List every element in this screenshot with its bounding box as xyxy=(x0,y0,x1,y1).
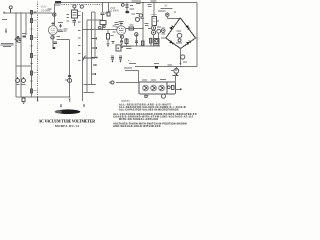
capacitor C6 on bus xyxy=(121,4,124,7)
wire grid tap xyxy=(87,19,102,21)
svg-text:1/2 6AN8: 1/2 6AN8 xyxy=(41,9,51,12)
svg-text:1/2 6AN8: 1/2 6AN8 xyxy=(109,10,119,13)
heater V1 xyxy=(143,85,149,91)
wire bus tap2 xyxy=(82,29,116,31)
shield dashed xyxy=(37,2,39,98)
wire to bridge apex xyxy=(167,17,180,19)
ground bottom left bus xyxy=(69,96,70,97)
labels above B+ bus xyxy=(132,0,138,1)
wire divider C xyxy=(25,13,27,35)
tube V1B envelope xyxy=(117,26,126,35)
trimmer capacitor C1A branch xyxy=(73,5,76,8)
wire top bus B+ xyxy=(61,1,197,3)
ground probe xyxy=(5,29,7,32)
wire cathode to divider xyxy=(57,38,70,40)
switch S1B wafer bus xyxy=(81,12,83,101)
wire screen feed xyxy=(153,3,155,17)
capacitor C19 xyxy=(181,55,185,59)
ground R13 xyxy=(106,43,109,45)
wire left mid xyxy=(16,65,32,67)
labels top right xyxy=(158,11,166,12)
wire divider B xyxy=(20,13,22,97)
grid stopper above V1A xyxy=(52,22,54,26)
capacitor C8 branch xyxy=(126,2,127,3)
svg-text:AC VACUUM TUBE VOLTMETER: AC VACUUM TUBE VOLTMETER xyxy=(39,119,96,123)
wire grid feed xyxy=(54,4,56,26)
capacitor C12 xyxy=(157,29,161,33)
wire plate V1A to coupling xyxy=(57,29,62,31)
V1B pin marks xyxy=(113,26,116,27)
meter M1 center xyxy=(176,30,181,31)
wire ground bus center xyxy=(120,45,160,47)
potentiometer R8 zero adj xyxy=(16,79,20,83)
resistor R12 xyxy=(100,21,106,25)
heater box T1 xyxy=(139,82,175,94)
capacitor C1 input xyxy=(53,13,56,16)
input jack J1 xyxy=(9,6,12,9)
capacitor C7 xyxy=(101,12,105,14)
svg-text:ALL RESISTORS ARE 1/2 WATT: ALL RESISTORS ARE 1/2 WATT xyxy=(119,103,171,106)
label C4 xyxy=(65,79,68,82)
node dot xyxy=(128,60,129,61)
wire plate V1B xyxy=(126,27,143,29)
ground stub dashed end xyxy=(37,97,39,100)
box bottom right of switch xyxy=(116,45,121,51)
node J1a xyxy=(15,12,16,13)
labels divider resistors xyxy=(34,11,37,91)
capacitor C2 xyxy=(23,35,27,37)
potentiometer R9 cal adj xyxy=(22,79,26,83)
trimmer capacitor C1B xyxy=(81,3,83,6)
plug P1 xyxy=(111,81,114,84)
capacitor C4 xyxy=(68,79,72,83)
resistor R14 from bus xyxy=(108,3,110,13)
node plate V1A xyxy=(60,29,61,30)
capacitor C14A to ground xyxy=(111,54,114,57)
ground OB2 xyxy=(172,74,178,76)
svg-text:CHASSIS GROUND WITH VTVM LINE: CHASSIS GROUND WITH VTVM LINE VOLTAGE AT… xyxy=(113,116,194,119)
switch S1B contact labels xyxy=(78,15,81,61)
capacitor C13 xyxy=(136,34,138,46)
wire bridge left xyxy=(161,37,166,39)
resistor R18 xyxy=(126,38,128,46)
resistor R19 xyxy=(141,41,144,46)
wire arm lower A xyxy=(84,84,95,86)
label probe note xyxy=(1,42,13,45)
resistor R20 xyxy=(150,38,152,47)
regulator tube OB2 xyxy=(175,67,177,69)
resistor R13 xyxy=(107,30,109,34)
wire S2 line to box xyxy=(116,82,139,84)
wire right border xyxy=(196,3,198,67)
capacitor C15 polarized xyxy=(155,66,158,69)
fuse mark below box xyxy=(144,95,148,96)
label R15 xyxy=(135,1,141,2)
diode D4 xyxy=(186,40,191,45)
transformer primary box xyxy=(152,17,156,26)
pilot lamp I1 xyxy=(162,94,166,98)
node bus xyxy=(87,29,88,30)
heater aux xyxy=(167,86,170,89)
wire input xyxy=(4,12,53,14)
svg-text:WITH NO SIGNAL APPLIED: WITH NO SIGNAL APPLIED xyxy=(119,118,159,121)
ground aux near V1B xyxy=(112,41,115,43)
ground V1A cathode xyxy=(52,47,55,49)
wire S2 to heater box xyxy=(125,70,139,72)
resistor string R1-R7 range divider xyxy=(31,10,33,97)
ground stub B xyxy=(83,104,85,106)
tube V1A envelope xyxy=(48,26,57,35)
diode D1 xyxy=(169,25,174,30)
wire screen vertical xyxy=(142,3,144,46)
capacitor C1 on bus xyxy=(55,1,61,4)
labels above heater box xyxy=(142,79,147,80)
heater V3 xyxy=(159,85,165,91)
svg-text:NOTES: NOTES xyxy=(121,100,130,103)
svg-text:AND SHOULD HOLD WITHIN 20%: AND SHOULD HOLD WITHIN 20% xyxy=(113,125,160,128)
wire bridge right xyxy=(196,37,198,39)
capacitor C14B to ground xyxy=(119,54,122,57)
label input xyxy=(2,19,7,20)
cathode V1B xyxy=(120,35,123,38)
phone jack M xyxy=(166,13,169,16)
ground stub A xyxy=(60,104,62,106)
wire divider A xyxy=(15,13,17,97)
svg-text:MODEL DU-14: MODEL DU-14 xyxy=(55,124,79,128)
fuse F1 below box xyxy=(145,95,148,98)
misc marks right of R13 xyxy=(115,22,119,23)
logo badge xyxy=(56,109,81,114)
tick near box xyxy=(117,47,119,49)
choke L1 xyxy=(136,18,140,22)
wire wiper xyxy=(82,57,95,59)
svg-text:ALL RESISTOR VALUES IN OHMS K: ALL RESISTOR VALUES IN OHMS K = 1000 M xyxy=(119,106,186,109)
svg-text:ALL CAPACITOR VALUES IN MICROF: ALL CAPACITOR VALUES IN MICROFARADS xyxy=(119,109,179,112)
switch S1A contacts xyxy=(17,37,19,39)
diode D3 xyxy=(169,40,174,45)
label S2 xyxy=(124,67,132,68)
capacitor C2A xyxy=(73,18,75,20)
wire bridge bottom drop xyxy=(180,49,182,64)
label S2a xyxy=(129,62,136,65)
shield dashed top xyxy=(62,3,102,5)
capacitor C9 coupling xyxy=(129,27,134,30)
resistor R10 bias xyxy=(22,98,25,101)
meter bridge diamond xyxy=(166,18,196,49)
diode D2 xyxy=(186,25,191,30)
notes lines xyxy=(113,103,197,128)
capacitor C11A xyxy=(151,26,155,30)
resistor R2 box xyxy=(71,10,77,18)
wire lower right bus xyxy=(135,66,197,68)
heater V2 xyxy=(151,85,157,91)
electrolytic block left of bridge xyxy=(154,38,159,43)
label under ground bus xyxy=(121,46,131,47)
svg-text:ALL VOLTAGES MEASURED FROM POI: ALL VOLTAGES MEASURED FROM POINTS INDICA… xyxy=(113,113,197,116)
notes underlay xyxy=(113,104,196,127)
labels C1A column xyxy=(66,13,69,16)
wire heater out xyxy=(175,88,181,90)
wire grid V1B vertical xyxy=(102,3,104,13)
V1B plate top marks xyxy=(120,22,122,26)
node J1b xyxy=(20,12,21,13)
resistor R11 plate xyxy=(58,22,63,23)
wire arm lower B xyxy=(84,92,93,94)
capacitor C11B xyxy=(151,30,155,34)
label OB2 xyxy=(167,64,171,65)
svg-text:VOLTAGES TAKEN WITH SWITCH IN: VOLTAGES TAKEN WITH SWITCH IN POSITION S… xyxy=(113,123,187,126)
capacitor C10 xyxy=(139,14,142,17)
wire ground bus bottom left xyxy=(16,96,70,98)
svg-text:V1 A: V1 A xyxy=(41,6,46,9)
stub contacts right xyxy=(91,38,96,75)
filter caps to ground bus xyxy=(148,27,151,29)
capacitor C3 cathode xyxy=(57,35,60,38)
